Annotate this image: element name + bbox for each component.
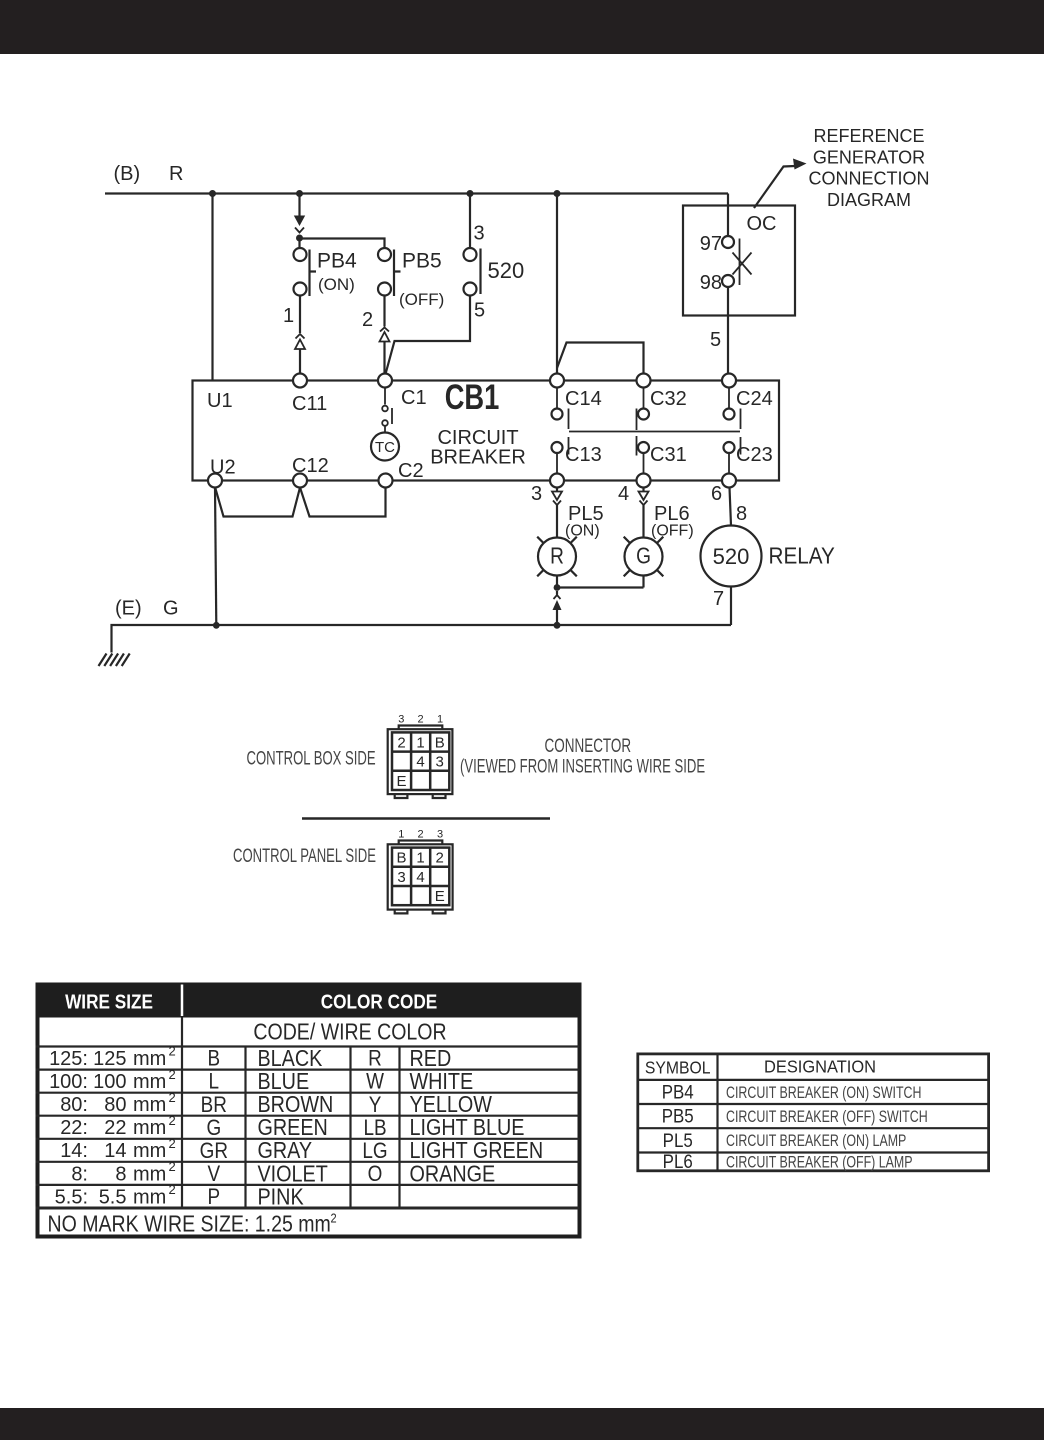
svg-text:BLACK: BLACK — [258, 1046, 323, 1072]
svg-text:C32: C32 — [650, 388, 687, 410]
svg-text:4: 4 — [618, 483, 629, 505]
svg-text:2: 2 — [362, 309, 373, 331]
svg-text:E: E — [435, 888, 445, 905]
svg-text:22:: 22: — [60, 1117, 88, 1139]
svg-text:80: 80 — [104, 1094, 126, 1116]
svg-text:1: 1 — [283, 305, 294, 327]
svg-text:C1: C1 — [401, 387, 427, 409]
svg-text:97: 97 — [700, 233, 722, 255]
svg-text:5: 5 — [710, 329, 721, 351]
svg-text:W: W — [366, 1069, 384, 1094]
svg-text:BROWN: BROWN — [258, 1092, 334, 1118]
svg-text:(B): (B) — [114, 163, 141, 185]
svg-text:2: 2 — [169, 1044, 176, 1059]
svg-text:C12: C12 — [292, 455, 329, 477]
svg-text:98: 98 — [700, 272, 722, 294]
svg-text:22: 22 — [104, 1117, 126, 1139]
svg-text:VIOLET: VIOLET — [258, 1161, 328, 1187]
svg-text:COLOR CODE: COLOR CODE — [321, 990, 438, 1013]
svg-text:2: 2 — [397, 735, 405, 752]
svg-text:B: B — [435, 735, 445, 752]
svg-text:G: G — [206, 1115, 221, 1140]
svg-text:Y: Y — [369, 1092, 382, 1117]
svg-text:GREEN: GREEN — [258, 1115, 328, 1141]
svg-text:1: 1 — [437, 714, 443, 726]
svg-text:PB4: PB4 — [317, 250, 357, 273]
svg-text:8:: 8: — [71, 1163, 88, 1185]
svg-text:REFERENCE: REFERENCE — [813, 126, 924, 146]
svg-text:mm: mm — [133, 1140, 166, 1162]
svg-text:CB1: CB1 — [445, 378, 500, 417]
svg-text:R: R — [169, 163, 183, 185]
svg-text:2: 2 — [418, 829, 424, 841]
svg-text:mm: mm — [133, 1094, 166, 1116]
svg-text:PINK: PINK — [258, 1184, 305, 1210]
svg-text:B: B — [207, 1046, 220, 1071]
svg-text:mm: mm — [133, 1048, 166, 1070]
svg-text:YELLOW: YELLOW — [410, 1092, 493, 1118]
svg-text:DESIGNATION: DESIGNATION — [764, 1057, 876, 1077]
svg-text:100:: 100: — [49, 1071, 88, 1093]
svg-text:(VIEWED FROM INSERTING WIRE SI: (VIEWED FROM INSERTING WIRE SIDE — [460, 756, 705, 777]
svg-text:2: 2 — [169, 1090, 176, 1105]
svg-text:LG: LG — [362, 1139, 387, 1164]
svg-text:5.5:: 5.5: — [55, 1186, 88, 1208]
svg-text:GR: GR — [200, 1139, 228, 1164]
svg-text:CIRCUIT BREAKER (OFF) SWITCH: CIRCUIT BREAKER (OFF) SWITCH — [726, 1108, 928, 1126]
svg-text:V: V — [207, 1162, 220, 1187]
svg-text:C14: C14 — [565, 388, 602, 410]
svg-text:SYMBOL: SYMBOL — [645, 1058, 711, 1078]
svg-text:1: 1 — [416, 735, 424, 752]
svg-text:R: R — [368, 1046, 382, 1071]
svg-text:CIRCUIT BREAKER (ON) SWITCH: CIRCUIT BREAKER (ON) SWITCH — [726, 1084, 921, 1102]
svg-text:1: 1 — [398, 829, 404, 841]
svg-text:LIGHT BLUE: LIGHT BLUE — [410, 1115, 525, 1141]
svg-text:U1: U1 — [207, 390, 233, 412]
svg-text:PL5: PL5 — [663, 1130, 693, 1151]
svg-text:520: 520 — [488, 258, 525, 283]
svg-text:mm: mm — [133, 1186, 166, 1208]
svg-text:G: G — [163, 598, 179, 620]
svg-text:LIGHT GREEN: LIGHT GREEN — [410, 1138, 544, 1164]
svg-text:WIRE SIZE: WIRE SIZE — [65, 990, 153, 1013]
svg-text:2: 2 — [436, 850, 444, 867]
svg-text:80:: 80: — [60, 1094, 88, 1116]
svg-text:BREAKER: BREAKER — [430, 447, 526, 469]
svg-text:GENERATOR: GENERATOR — [813, 147, 925, 167]
svg-text:7: 7 — [713, 588, 724, 610]
svg-text:3: 3 — [474, 223, 485, 245]
svg-text:E: E — [396, 773, 406, 790]
svg-text:125:: 125: — [49, 1048, 88, 1070]
svg-text:C11: C11 — [292, 393, 327, 415]
svg-text:B: B — [396, 850, 406, 867]
svg-text:2: 2 — [169, 1113, 176, 1128]
svg-text:3: 3 — [436, 754, 444, 771]
svg-text:CONTROL BOX SIDE: CONTROL BOX SIDE — [247, 748, 376, 769]
svg-text:520: 520 — [713, 544, 750, 569]
svg-text:(ON): (ON) — [318, 275, 355, 294]
svg-text:mm: mm — [133, 1117, 166, 1139]
svg-text:C24: C24 — [736, 388, 773, 410]
svg-text:(E): (E) — [115, 598, 142, 620]
svg-text:C13: C13 — [565, 444, 602, 466]
svg-text:CONNECTION: CONNECTION — [809, 169, 930, 189]
svg-text:R: R — [550, 544, 564, 569]
svg-text:PB5: PB5 — [402, 250, 442, 273]
svg-text:6: 6 — [711, 483, 722, 505]
svg-text:(ON): (ON) — [565, 523, 600, 540]
svg-text:NO MARK WIRE SIZE: 1.25 mm: NO MARK WIRE SIZE: 1.25 mm — [48, 1211, 331, 1237]
svg-text:1: 1 — [416, 850, 424, 867]
svg-text:PL6: PL6 — [663, 1151, 693, 1172]
svg-text:GRAY: GRAY — [258, 1138, 313, 1164]
svg-text:BLUE: BLUE — [258, 1069, 310, 1095]
svg-text:L: L — [209, 1069, 220, 1094]
svg-text:U2: U2 — [210, 457, 236, 479]
svg-text:C31: C31 — [650, 444, 687, 466]
svg-text:WHITE: WHITE — [410, 1069, 474, 1095]
svg-text:2: 2 — [418, 714, 424, 726]
svg-text:2: 2 — [169, 1067, 176, 1082]
svg-text:PB4: PB4 — [662, 1082, 694, 1103]
svg-text:5: 5 — [474, 300, 485, 322]
svg-text:DIAGRAM: DIAGRAM — [827, 190, 911, 210]
svg-text:14: 14 — [104, 1140, 126, 1162]
svg-text:(OFF): (OFF) — [651, 523, 694, 540]
svg-text:RELAY: RELAY — [769, 542, 836, 568]
svg-text:2: 2 — [169, 1159, 176, 1174]
svg-text:125: 125 — [93, 1048, 126, 1070]
svg-text:CONTROL PANEL SIDE: CONTROL PANEL SIDE — [233, 846, 376, 867]
svg-text:C23: C23 — [736, 444, 773, 466]
svg-text:mm: mm — [133, 1071, 166, 1093]
svg-text:2: 2 — [169, 1136, 176, 1151]
svg-text:(OFF): (OFF) — [399, 290, 444, 309]
svg-text:5.5: 5.5 — [99, 1186, 127, 1208]
svg-text:2: 2 — [331, 1210, 337, 1225]
svg-text:CIRCUIT BREAKER (ON) LAMP: CIRCUIT BREAKER (ON) LAMP — [726, 1132, 906, 1150]
svg-text:C2: C2 — [398, 460, 424, 482]
svg-text:PB5: PB5 — [662, 1106, 694, 1127]
svg-text:RED: RED — [410, 1046, 452, 1072]
svg-text:mm: mm — [133, 1163, 166, 1185]
svg-text:BR: BR — [201, 1092, 227, 1117]
svg-text:CODE/ WIRE COLOR: CODE/ WIRE COLOR — [253, 1019, 446, 1045]
svg-text:3: 3 — [398, 714, 404, 726]
svg-text:P: P — [207, 1185, 220, 1210]
svg-text:14:: 14: — [60, 1140, 88, 1162]
svg-text:G: G — [636, 544, 651, 569]
svg-text:CIRCUIT BREAKER (OFF) LAMP: CIRCUIT BREAKER (OFF) LAMP — [726, 1154, 913, 1172]
svg-text:3: 3 — [397, 869, 405, 886]
svg-text:3: 3 — [531, 483, 542, 505]
svg-text:2: 2 — [169, 1182, 176, 1197]
svg-text:LB: LB — [363, 1115, 386, 1140]
svg-text:CONNECTOR: CONNECTOR — [545, 736, 632, 757]
svg-text:8: 8 — [115, 1163, 126, 1185]
svg-text:100: 100 — [93, 1071, 126, 1093]
svg-text:ORANGE: ORANGE — [410, 1161, 496, 1187]
svg-text:3: 3 — [437, 829, 443, 841]
svg-text:OC: OC — [747, 213, 777, 235]
svg-text:TC: TC — [375, 439, 395, 456]
svg-text:O: O — [368, 1162, 383, 1187]
svg-text:8: 8 — [736, 503, 747, 525]
svg-text:4: 4 — [416, 754, 424, 771]
svg-text:4: 4 — [416, 869, 424, 886]
